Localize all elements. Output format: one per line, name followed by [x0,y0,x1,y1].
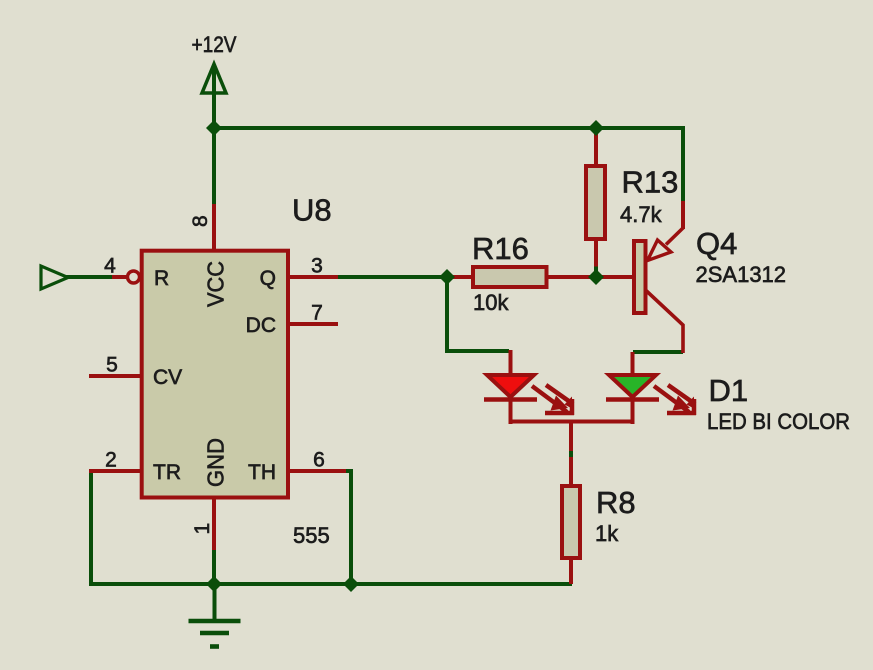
svg-text:4.7k: 4.7k [620,202,663,227]
svg-text:3: 3 [311,255,323,278]
svg-text:TH: TH [248,461,276,484]
LED D1 common cathode bar [509,420,635,424]
wire: bottom ground rail [89,582,572,586]
wire: short segment above R13/base junction [594,267,598,273]
transistor Q4 body [598,201,684,353]
svg-text:1: 1 [191,523,214,535]
svg-text:4: 4 [104,255,116,278]
junction node at ground rail / GND pin [206,576,222,592]
wire: Q output pin3 to junction [336,275,449,279]
svg-text:+12V: +12V [192,32,237,57]
junction node at Q output [439,269,455,285]
svg-text:LED BI COLOR: LED BI COLOR [707,409,850,434]
junction node at power rail / VCC [206,120,222,136]
wire: right vertical to Q4 emitter [681,126,685,206]
ground symbol [189,584,241,647]
wire: collector branch horizontal to green LED [633,350,683,354]
resistor R16 body [449,267,598,287]
svg-text:Q: Q [260,267,276,290]
LED D1 red half [484,350,574,424]
svg-text:CV: CV [153,366,182,389]
wire: TR pin 2 down to ground rail [91,471,97,584]
pin 1 stub (GND) [212,496,216,550]
svg-text:GND: GND [203,438,229,487]
svg-text:U8: U8 [292,193,332,228]
IC U8 (555 timer) body [142,251,288,498]
svg-text:DC: DC [246,314,276,337]
wire: LED common to R8 [569,422,573,451]
pin 4 stub and inversion bubble on R [112,271,140,283]
pin 5 stub (CV) [89,374,143,378]
pin 3 stub (Q) [288,275,338,279]
pin 2 stub (TR) [89,469,143,473]
svg-text:R16: R16 [472,231,529,266]
resistor R13 body [586,128,605,277]
svg-text:R13: R13 [622,165,679,200]
wire: input terminal to R pin 4 [66,275,113,279]
pin 8 stub (VCC) [212,204,216,252]
svg-text:2: 2 [105,449,117,472]
wire: TH pin 6 down to ground rail [345,471,351,584]
input terminal arrow [41,266,68,289]
junction node at power rail / R13 [588,120,604,136]
LED D1 green half [606,352,696,424]
pin 6 stub (TH) [288,469,346,473]
svg-text:8: 8 [189,215,212,227]
resistor R8 body [562,457,580,584]
wire: junction down to red LED branch [447,277,509,351]
wire: power vertical from +12V arrow to VCC pin [212,66,216,206]
svg-text:D1: D1 [709,373,749,408]
wire: GND pin 1 to ground rail [212,549,216,584]
svg-text:R: R [154,267,169,290]
svg-text:TR: TR [153,461,181,484]
junction node at ground rail / TH [343,576,359,592]
pin 7 stub (DC) [288,322,338,326]
svg-text:7: 7 [311,302,323,325]
svg-text:555: 555 [293,523,330,548]
svg-text:6: 6 [313,449,325,472]
wire: top power rail [212,126,683,130]
svg-text:VCC: VCC [203,261,229,307]
svg-text:2SA1312: 2SA1312 [696,262,787,287]
svg-text:R8: R8 [596,485,636,520]
svg-text:5: 5 [106,354,118,377]
junction node at R13 / Q4 base [588,269,604,285]
svg-text:1k: 1k [595,521,619,546]
svg-text:Q4: Q4 [696,226,737,261]
wire: R8 middle segment [569,449,573,459]
svg-text:10k: 10k [473,290,509,315]
power terminal +12V arrow [202,64,226,93]
